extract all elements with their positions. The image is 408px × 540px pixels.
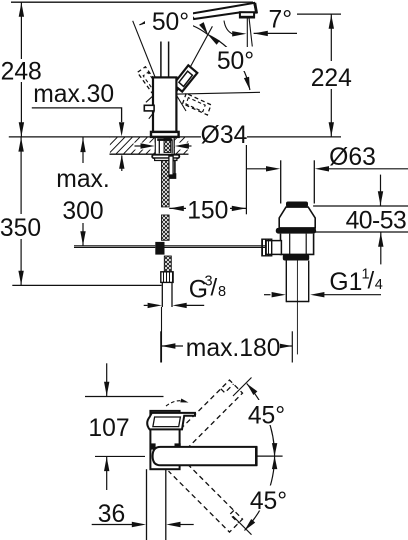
svg-text:Ø63: Ø63 — [329, 144, 376, 171]
svg-text:36: 36 — [98, 501, 125, 528]
svg-text:50°: 50° — [217, 48, 254, 75]
svg-text:max.180: max.180 — [186, 335, 281, 362]
svg-text:40-53: 40-53 — [346, 207, 407, 234]
svg-text:350: 350 — [0, 215, 41, 242]
svg-text:max.: max. — [56, 166, 110, 193]
svg-text:224: 224 — [311, 65, 352, 92]
svg-text:Ø34: Ø34 — [201, 122, 248, 149]
svg-text:G1: G1 — [329, 269, 362, 296]
svg-text:/: / — [368, 268, 375, 295]
svg-text:45°: 45° — [250, 488, 287, 515]
svg-text:50°: 50° — [152, 9, 189, 36]
svg-text:107: 107 — [88, 415, 129, 442]
svg-text:150: 150 — [187, 198, 228, 225]
svg-text:max.30: max.30 — [33, 81, 114, 108]
svg-text:8: 8 — [218, 284, 226, 300]
svg-text:300: 300 — [62, 198, 103, 225]
svg-text:45°: 45° — [248, 403, 285, 430]
svg-text:7°: 7° — [269, 7, 293, 34]
svg-text:4: 4 — [375, 277, 383, 293]
svg-text:/: / — [211, 275, 218, 302]
